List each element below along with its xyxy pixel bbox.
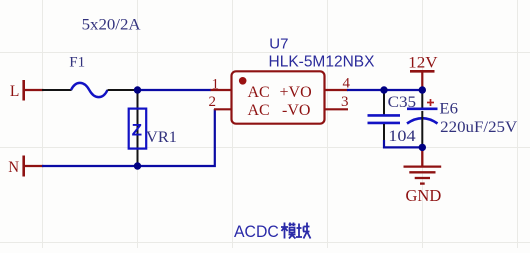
svg-text:12V: 12V [408,55,438,72]
junction node N/VR1 [134,162,141,169]
junction node E6 top [419,86,426,93]
op module U7 pin 1 stub [211,89,233,91]
svg-text:AC: AC [248,84,270,101]
svg-text:Z: Z [132,120,142,139]
module U7 body [232,71,325,123]
junction node L/VR1 [134,86,141,93]
varistor VR1 [129,90,147,164]
svg-text:GND: GND [406,186,442,205]
op module U7 pin 2 stub [214,108,232,110]
polarity plus sign [427,99,434,106]
svg-text:ACDC: ACDC [234,223,279,241]
wire C35 bottom to ground node [384,140,421,147]
junction node ground [419,144,426,151]
svg-text:2: 2 [209,94,217,110]
svg-text:220uF/25V: 220uF/25V [440,119,517,136]
port N [8,156,43,177]
port L [10,80,44,101]
capacitor E6 (electrolytic) [407,90,438,147]
wire pin4 to 12V rail [347,89,423,91]
fuse F1 [42,83,137,97]
svg-text:-VO: -VO [282,102,310,119]
svg-text:5x20/2A: 5x20/2A [82,17,141,34]
svg-text:N: N [8,159,19,176]
caption ACDC module [234,223,311,242]
junction node C35 top [380,86,387,93]
wire L node to pin 1 [137,89,211,91]
pin-1 mark dot [239,77,247,85]
ground GND [404,147,442,183]
svg-text:E6: E6 [439,101,458,118]
svg-text:HLK-5M12NBX: HLK-5M12NBX [269,54,376,71]
svg-text:F1: F1 [69,55,85,71]
power rail 12V [410,71,435,90]
pin 3 stub [325,108,349,110]
svg-text:U7: U7 [269,36,288,53]
svg-text:104: 104 [388,128,415,145]
pin 4 stub [325,89,349,91]
svg-text:3: 3 [341,94,349,110]
capacitor C35 [368,90,401,141]
svg-text:+VO: +VO [280,84,312,101]
svg-text:VR1: VR1 [146,129,177,146]
svg-text:L: L [10,83,20,100]
wire N to pin 2 riser [42,109,215,166]
svg-text:AC: AC [248,102,270,119]
svg-text:1: 1 [212,77,220,93]
